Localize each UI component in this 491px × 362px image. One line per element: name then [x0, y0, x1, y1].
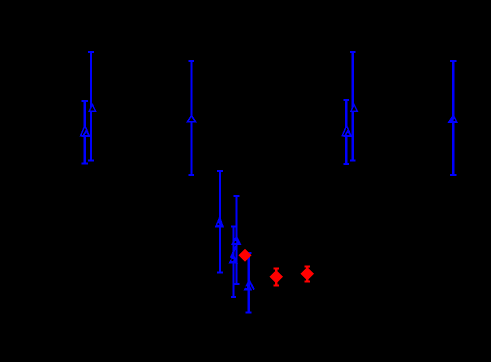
triangle marker A1 small (open, x=86.3) [82, 129, 92, 137]
red diamond D3 (x=307.3) [301, 267, 314, 280]
triangle marker 2 (open, x=191.5) [186, 114, 197, 123]
error bar point 6 (x=453.1) [450, 60, 456, 176]
error bar point 2 (x=191.4) [189, 60, 195, 176]
error bar C3 (x=233.5) [231, 226, 236, 299]
triangle marker C4 (x=247.9) [244, 281, 252, 290]
triangle marker C1 (x=219.7) [215, 215, 224, 227]
triangle marker C3 (x=233.6) [228, 254, 238, 264]
triangle marker B4 (open, x=354.2) [350, 103, 359, 112]
triangle marker A1 big (open, x=84.9) [80, 124, 91, 137]
red error bar D3 (x=307.3) [304, 266, 310, 283]
error bar C1 (x=220) [217, 170, 223, 274]
red diamond D2 (x=276.2) [269, 270, 283, 284]
triangle marker C2 (x=236.4) [231, 235, 242, 245]
triangle marker A4 small (open, x=348) [343, 129, 353, 137]
triangle C3 left edge stroke [231, 246, 236, 257]
triangle marker A4 big (open, x=346.6) [341, 124, 352, 137]
error bar series-B point 1 (x=91) [88, 51, 94, 161]
red diamond D1 (x=244.9) [238, 249, 251, 262]
red error bar D2 (x=276.2) [273, 267, 279, 286]
error bar C2 (x=236.5) [234, 195, 240, 285]
triangle marker B1 (open, x=92.5) [88, 103, 97, 112]
triangle C4 right edge stroke [249, 281, 254, 290]
error bar series-B point 4 (x=352.7) [350, 51, 356, 162]
triangle marker 6 (x=453.4) [447, 114, 458, 123]
error bar series-A point 4 (x=346.3) [344, 99, 350, 165]
error bar series-A point 1 (x=84.7) [82, 100, 88, 165]
error bar C4 (x=248.6, behind diamond) [246, 252, 252, 313]
